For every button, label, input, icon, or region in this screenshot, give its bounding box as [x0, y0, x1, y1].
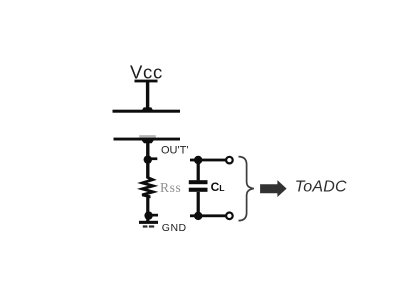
capacitor bottom junction dot [194, 212, 202, 220]
curly brace [239, 157, 254, 221]
resistor Rss zigzag [142, 178, 153, 198]
wire to capacitor top [190, 159, 226, 162]
svg-text:OU'T': OU'T' [161, 145, 188, 157]
svg-text:ToADC: ToADC [295, 179, 347, 196]
svg-text:GND: GND [162, 222, 187, 234]
ground bar 2 dash b [149, 225, 154, 227]
wire Vcc bar to upper rail [146, 82, 149, 110]
svg-text:CL: CL [211, 180, 226, 194]
capacitor C_L bottom plate [189, 188, 208, 192]
lower horizontal rail [114, 138, 181, 141]
ground bar 2 dash a [143, 225, 148, 227]
wire lower rail to resistor [146, 141, 149, 179]
capacitor top junction dot [194, 156, 202, 164]
gray smudge above lower rail [139, 135, 156, 138]
svg-text:Rss: Rss [160, 180, 181, 195]
junction blob under lower rail [142, 140, 154, 143]
bottom open circle terminal [226, 213, 233, 220]
ground bar 1 [139, 221, 158, 224]
wire to capacitor bottom [190, 214, 226, 217]
capacitor C_L bottom lead [197, 192, 200, 216]
capacitor C_L top lead [197, 160, 200, 180]
capacitor C_L top plate [189, 180, 208, 184]
ground junction dot [144, 211, 152, 219]
svg-text:Vcc: Vcc [130, 61, 163, 82]
node OUT junction dot [144, 155, 152, 163]
arrow to ADC [260, 180, 287, 197]
top open circle terminal [226, 157, 233, 164]
wire stub right of OUT node [148, 157, 158, 160]
junction blob on upper rail [142, 107, 154, 110]
Vcc power bar [135, 80, 158, 83]
wire stub right of ground node [149, 214, 158, 217]
wire resistor to ground [146, 197, 149, 222]
upper horizontal rail [113, 110, 181, 113]
